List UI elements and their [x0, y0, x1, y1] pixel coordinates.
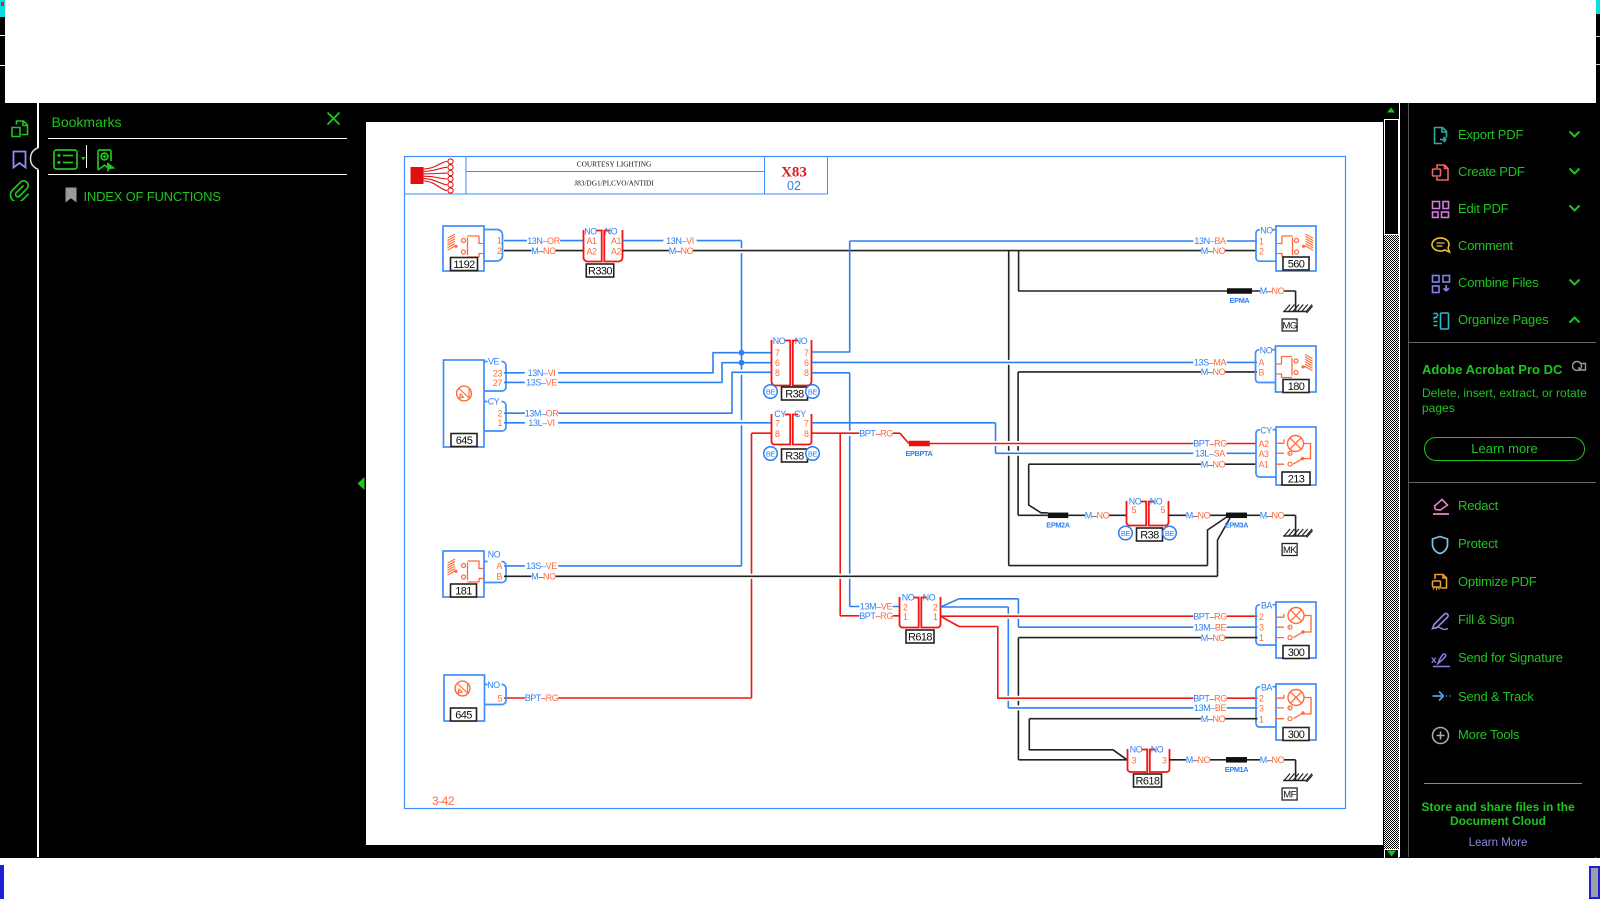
component 180 (switch): [1276, 346, 1317, 393]
svg-text:MK: MK: [1283, 545, 1297, 556]
svg-text:3: 3: [1259, 704, 1264, 714]
splice EPM2A: [1046, 513, 1070, 530]
wire 13M-BE branch (R618 pin2 to 300 bottom pin3): [941, 607, 1258, 713]
relay R38 (NO contacts 7,6,8): [772, 336, 812, 386]
right window edge strip: [1596, 0, 1600, 862]
svg-text:645: 645: [455, 710, 472, 722]
component 300 (tail lamp, top): [1276, 602, 1316, 659]
svg-text:CY: CY: [774, 409, 786, 419]
svg-text:A2: A2: [611, 246, 622, 256]
relay R618 (contacts 2,1): [900, 593, 941, 628]
svg-text:R618: R618: [1136, 776, 1160, 788]
wire 13N-VI (R330 A1 right, down vertical to R38 junctions): [623, 236, 742, 566]
wire M-NO (180 pin B down x=1018.1 to EPM2A): [1018, 367, 1257, 515]
svg-text:NO: NO: [1130, 745, 1143, 755]
svg-text:7: 7: [775, 348, 780, 358]
bookmarks panel: [39, 103, 356, 857]
svg-text:M–NO: M–NO: [1260, 286, 1285, 296]
svg-text:BPT–RG: BPT–RG: [1193, 439, 1227, 449]
svg-text:BPT–RG: BPT–RG: [1193, 611, 1227, 621]
connector bracket BA of 300 top, pins 2,3,1: [1256, 601, 1276, 645]
svg-text:181: 181: [455, 586, 472, 598]
connector bracket NO of 645 lamp, pin 5: [484, 680, 506, 705]
svg-text:7: 7: [804, 348, 809, 358]
svg-text:8: 8: [775, 429, 780, 439]
svg-text:8: 8: [804, 429, 809, 439]
svg-text:1: 1: [1259, 714, 1264, 724]
wire 13N-OR (1192 pin1 to R330 A1): [504, 236, 583, 246]
svg-text:M–NO: M–NO: [669, 246, 694, 256]
component 1192 (courtesy switch): [443, 226, 484, 271]
connector BE (R38cy right): [806, 447, 820, 461]
svg-text:M–NO: M–NO: [1201, 367, 1226, 377]
options icon: [53, 149, 93, 171]
wire 13S-VE (645 pin27 to R38 pin6): [504, 363, 772, 388]
svg-text:M–NO: M–NO: [531, 572, 556, 582]
wire 13M-VE (R38 pin8 down to R618 pin 2): [812, 373, 900, 612]
svg-text:180: 180: [1288, 381, 1305, 393]
svg-text:A: A: [496, 561, 502, 571]
svg-text:BE: BE: [766, 387, 776, 396]
Export PDF row: [1400, 134, 1596, 136]
svg-text:7: 7: [804, 419, 809, 429]
svg-text:13M–OR: 13M–OR: [525, 408, 560, 418]
svg-text:560: 560: [1288, 259, 1305, 271]
wire 13L-VI (645 pin1 to R38cy pin7): [504, 418, 772, 428]
wire 13N-VI (645 pin23 to R38 pin7): [504, 353, 772, 378]
Fill & Sign row: [1400, 619, 1596, 621]
svg-text:2: 2: [933, 602, 938, 612]
svg-text:13L–VI: 13L–VI: [528, 418, 554, 428]
relay R618 (contact 3): [1128, 745, 1170, 773]
svg-text:1: 1: [497, 236, 502, 246]
svg-text:R38: R38: [785, 451, 804, 463]
Redact row: [1400, 505, 1596, 507]
svg-text:M–NO: M–NO: [1085, 511, 1110, 521]
selected-panel notch next to bookmark icon: [30, 148, 39, 170]
svg-text:x: x: [1431, 655, 1437, 666]
svg-text:BE: BE: [808, 387, 818, 396]
connector bracket of 1192, pins 1,2: [484, 230, 503, 262]
wire BPT-RG (R618 pin1 to 300 top pin2): [941, 611, 1258, 621]
svg-text:1: 1: [903, 612, 908, 622]
wire 13M-BE (R618 pin2 diag up to 300 top pin3): [941, 599, 1258, 633]
svg-text:BE: BE: [808, 449, 818, 458]
component 645 (interior lamp unit): [444, 360, 485, 447]
connector BE (R38-5 left): [1119, 526, 1133, 540]
svg-text:BPT–RG: BPT–RG: [1193, 693, 1227, 703]
svg-text:5: 5: [1131, 505, 1136, 515]
svg-text:3: 3: [1259, 622, 1264, 632]
svg-text:NO: NO: [773, 336, 786, 346]
svg-text:EPM2A: EPM2A: [1046, 521, 1070, 530]
top toolbar area (white, high-contrast inverted): [0, 0, 1600, 103]
connector bracket CY of 213, pins A2,A3,A1: [1256, 426, 1276, 477]
svg-text:1: 1: [1259, 633, 1264, 643]
splice EPMA: [1227, 288, 1252, 305]
svg-text:6: 6: [804, 358, 809, 368]
Comment row: [1400, 245, 1596, 247]
label R38: [782, 387, 808, 401]
page: [366, 122, 1383, 845]
wire M-NO (EPM2A to R38 pin5): [1068, 510, 1126, 520]
wire BPT-RG branch (R618 pin1 diag down to 300 bottom pin2): [941, 616, 1258, 703]
bookmark-target icon: [96, 149, 118, 172]
svg-text:NO: NO: [487, 680, 500, 690]
bookmark entry: [65, 187, 77, 203]
taskbar (white, high-contrast): [0, 858, 1600, 900]
label R38 (cy): [782, 449, 808, 463]
svg-text:1192: 1192: [453, 259, 475, 271]
component 645 (lamp): [444, 675, 485, 722]
svg-text:NO: NO: [1151, 745, 1164, 755]
wire 13S-MA (R38 pin6 to 180 pin A): [812, 357, 1258, 367]
svg-text:VE: VE: [488, 357, 500, 367]
label R618 (bottom): [1134, 774, 1162, 788]
connector BE (R38cy left): [764, 447, 778, 461]
svg-text:NO: NO: [923, 593, 936, 603]
svg-text:NO: NO: [1260, 346, 1273, 356]
wire M-NO (EPMA to ground MG): [1252, 286, 1296, 296]
svg-text:13S–VE: 13S–VE: [526, 561, 557, 571]
svg-text:M–NO: M–NO: [1201, 459, 1226, 469]
wire M-NO (181 pin B long bus to EPM3A): [504, 518, 1230, 582]
ground MK: [1282, 515, 1313, 556]
wire M-NO (EPM1A to ground MF): [1247, 755, 1296, 765]
svg-text:8: 8: [775, 368, 780, 378]
svg-text:A2: A2: [586, 246, 597, 256]
connector BE (R38 left): [764, 385, 778, 399]
component 560 (switch): [1276, 226, 1316, 271]
svg-text:EPBPTA: EPBPTA: [906, 449, 934, 458]
svg-text:13L–SA: 13L–SA: [1195, 449, 1225, 459]
svg-text:7: 7: [775, 419, 780, 429]
svg-text:MG: MG: [1282, 321, 1296, 332]
svg-text:13N–VI: 13N–VI: [666, 236, 694, 246]
scrollbar: [1384, 103, 1399, 857]
component 181 (switch): [443, 551, 484, 598]
wire 13N-BA (R38 pin7 up and right to 560 pin 1): [812, 236, 1257, 352]
promo block: [1422, 362, 1562, 377]
svg-text:A3: A3: [1259, 449, 1270, 459]
svg-text:M–NO: M–NO: [1201, 633, 1226, 643]
svg-text:27: 27: [493, 378, 503, 388]
Protect row: [1400, 543, 1596, 545]
svg-text:NO: NO: [902, 593, 915, 603]
label R618: [906, 630, 934, 644]
wire M branch down x=1018.6 to splice EPMA: [1019, 251, 1227, 291]
svg-text:EPM1A: EPM1A: [1225, 765, 1249, 774]
relay R330: [584, 227, 623, 278]
wire BPT-RG (R38cy pin8 right to splice EPBPTA to 213 A2): [812, 428, 1257, 449]
Send for Signature row: [1400, 657, 1596, 659]
svg-text:2: 2: [497, 409, 502, 419]
component 300 (tail lamp, bottom): [1276, 684, 1316, 741]
svg-text:R330: R330: [588, 266, 612, 278]
svg-text:2: 2: [1259, 693, 1264, 703]
svg-text:5: 5: [1160, 505, 1165, 515]
rail separator: [37, 103, 39, 857]
Combine Files row: [1400, 282, 1596, 284]
left window edge strip: [0, 0, 5, 103]
Create PDF row: [1400, 171, 1596, 173]
svg-text:NO: NO: [1260, 226, 1273, 236]
svg-text:13S–VE: 13S–VE: [526, 378, 557, 388]
svg-text:13N–OR: 13N–OR: [527, 236, 561, 246]
svg-text:5: 5: [497, 693, 502, 703]
component 213 (lamp unit): [1276, 427, 1316, 486]
wire M-NO (R38 pin5 to EPM3A): [1169, 510, 1227, 520]
splice EPBPTA: [906, 441, 934, 458]
connector bracket VE of 645, pins 23,27: [484, 357, 506, 391]
wire M-NO (300 top pin1 down x=1018.4 to R618b pin3): [1018, 633, 1257, 760]
tools panel: [1400, 103, 1596, 857]
svg-text:A: A: [1259, 358, 1265, 368]
connector bracket CY of 645, pins 2,1: [484, 397, 506, 431]
svg-text:300: 300: [1288, 647, 1305, 659]
svg-text:BE: BE: [1121, 529, 1131, 538]
svg-text:M–NO: M–NO: [1260, 511, 1285, 521]
left splitter triangle: [357, 477, 365, 490]
right splitter triangle: [1400, 478, 1408, 491]
connector bracket NO of 180, pins A,B: [1256, 346, 1276, 383]
wire M-NO (300 bottom pin1 down x=1029.3 to R618b pin3): [1029, 714, 1257, 760]
svg-text:213: 213: [1288, 474, 1305, 486]
svg-text:R618: R618: [908, 632, 932, 644]
svg-text:EPMA: EPMA: [1230, 296, 1251, 305]
svg-text:BA: BA: [1261, 601, 1273, 611]
svg-text:BPT–RG: BPT–RG: [859, 428, 893, 438]
sheet number 3-42: [432, 794, 455, 808]
connector BE (R38-5 right): [1163, 526, 1177, 540]
left rail: [0, 103, 37, 857]
svg-text:CY: CY: [488, 397, 500, 407]
svg-text:B: B: [496, 571, 502, 581]
svg-text:BE: BE: [766, 449, 776, 458]
svg-text:1: 1: [1259, 236, 1264, 246]
splice EPM3A: [1225, 513, 1249, 530]
svg-text:1: 1: [497, 418, 502, 428]
svg-text:BA: BA: [1261, 683, 1273, 693]
svg-text:BE: BE: [1165, 529, 1175, 538]
svg-text:EPM3A: EPM3A: [1225, 521, 1249, 530]
wire M-NO bus (R330 A2 to 560 pin 2): [623, 246, 1257, 256]
connector BE (R38 right): [806, 385, 820, 399]
svg-text:3: 3: [1132, 755, 1137, 765]
svg-text:J83/DG1/PLCVO/ANTIDI: J83/DG1/PLCVO/ANTIDI: [574, 179, 654, 188]
connector bracket BA of 300 bottom, pins 2,3,1: [1256, 683, 1276, 727]
junction dot at R38 pin7 feed: [739, 350, 745, 356]
ground MF: [1282, 760, 1313, 801]
wire M-NO (213 A1 down x=1028.7 to EPM2A): [1029, 459, 1257, 513]
connector bracket NO of 181, pins A,B: [484, 550, 506, 583]
title-block connector icon: [411, 159, 454, 193]
More Tools row: [1400, 734, 1596, 736]
junction dot at R38 pin6 feed: [739, 360, 745, 366]
diagram frame border: [405, 157, 1346, 809]
wire 13M-OR (645 pin2 to R38 pin8): [504, 372, 772, 418]
svg-text:A1: A1: [586, 236, 597, 246]
svg-text:2: 2: [497, 246, 502, 256]
relay R38 (contact 5): [1127, 497, 1169, 526]
ground MG: [1282, 291, 1313, 332]
Edit PDF row: [1400, 208, 1596, 210]
svg-text:R38: R38: [785, 389, 804, 401]
svg-text:B: B: [1259, 367, 1265, 377]
svg-text:M–NO: M–NO: [1186, 755, 1211, 765]
svg-text:3: 3: [1162, 755, 1167, 765]
svg-text:A1: A1: [1259, 460, 1270, 470]
svg-text:6: 6: [775, 358, 780, 368]
svg-text:8: 8: [804, 368, 809, 378]
svg-text:13N–VI: 13N–VI: [528, 368, 556, 378]
svg-text:A1: A1: [611, 236, 622, 246]
svg-text:R38: R38: [1140, 530, 1159, 542]
svg-text:300: 300: [1288, 729, 1305, 741]
wire M bus branch down x=1008.7 to EPM3A feed: [1009, 251, 1226, 566]
svg-text:MF: MF: [1283, 790, 1296, 801]
wire 13S-VE (181 pin A up to junction): [504, 561, 742, 571]
svg-text:02: 02: [787, 179, 801, 193]
document area: [356, 103, 1384, 857]
Send & Track row: [1400, 696, 1596, 698]
wire BPT-RG (R38cy pin8 left down to 645 lamp pin 5): [504, 433, 772, 703]
svg-text:M–NO: M–NO: [1260, 755, 1285, 765]
Organize Pages row: [1400, 319, 1596, 321]
svg-text:2: 2: [903, 602, 908, 612]
svg-text:13S–MA: 13S–MA: [1194, 358, 1227, 368]
svg-text:M–NO: M–NO: [1186, 511, 1211, 521]
svg-text:13M–BE: 13M–BE: [1194, 622, 1227, 632]
svg-text:BPT–RG: BPT–RG: [859, 611, 893, 621]
svg-text:13M–BE: 13M–BE: [1194, 703, 1227, 713]
svg-text:2: 2: [1259, 612, 1264, 622]
svg-text:645: 645: [456, 435, 473, 447]
svg-text:NO: NO: [795, 336, 808, 346]
connector bracket NO of 560, pins 1,2: [1256, 226, 1276, 262]
svg-text:BPT–RG: BPT–RG: [525, 693, 559, 703]
svg-text:3-42: 3-42: [432, 794, 455, 808]
svg-text:CY: CY: [1260, 426, 1272, 436]
relay R38 (CY contacts 7,8): [772, 409, 812, 445]
title block: [405, 157, 828, 194]
svg-text:CY: CY: [794, 409, 806, 419]
svg-text:13N–BA: 13N–BA: [1194, 236, 1226, 246]
Optimize PDF row: [1400, 581, 1596, 583]
svg-text:NO: NO: [488, 550, 501, 560]
svg-text:M–NO: M–NO: [1201, 246, 1226, 256]
wire BPT-RG branch (down x=840 to R618 pin 1): [840, 433, 899, 621]
wire 13L-SA (R38cy pin7 right to 213 A3): [812, 423, 1257, 459]
svg-text:M–NO: M–NO: [1201, 714, 1226, 724]
wire M-NO (R618b pin3 to EPM1A): [1170, 755, 1227, 765]
svg-text:2: 2: [1259, 246, 1264, 256]
wire M-NO (EPM3A to ground MK): [1247, 510, 1296, 520]
wire M-NO (1192 pin2 to R330 A2): [504, 246, 583, 256]
svg-text:1: 1: [933, 612, 938, 622]
label R38 (5): [1137, 528, 1163, 542]
svg-text:M–NO: M–NO: [531, 246, 556, 256]
svg-text:23: 23: [493, 368, 503, 378]
svg-text:COURTESY LIGHTING: COURTESY LIGHTING: [577, 160, 652, 169]
svg-text:A2: A2: [1259, 439, 1270, 449]
splice EPM1A: [1225, 757, 1249, 774]
